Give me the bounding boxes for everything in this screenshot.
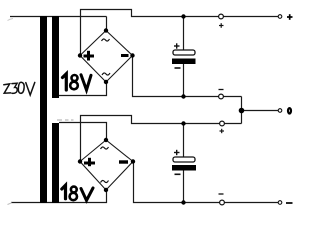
- label - output terminal: [286, 202, 293, 204]
- connector circle - rail: [220, 200, 225, 205]
- connector circle minus of top supply: [219, 94, 224, 99]
- B1 - node dot right: [130, 53, 134, 57]
- junction dot C2 bottom: [181, 200, 185, 204]
- terminal circle 0 output: [278, 109, 282, 113]
- wire primary top / secondary top lead: [10, 16, 107, 18]
- wire bridge2 + output rail: [81, 116, 242, 162]
- wire C2 top lead: [183, 124, 185, 158]
- B2 AC node dot bottom: [104, 188, 108, 192]
- B2 AC node dot top: [104, 138, 108, 142]
- B2 + node dot left: [78, 159, 82, 163]
- terminal circle + output: [278, 15, 282, 19]
- wire bridge2 - output rail: [134, 162, 279, 203]
- wire bridge2 AC bottom return / primary bottom: [11, 190, 107, 203]
- B1 tilde top: [102, 39, 110, 41]
- junction dot C1 top: [181, 14, 185, 18]
- wire secondary2 top lead: [59, 123, 107, 141]
- C1 minus label: [175, 67, 181, 69]
- capacitor C2 plus plate: [173, 157, 195, 162]
- junction dot C1 bottom: [181, 94, 185, 98]
- wire top secondary top to bridge AC top: [106, 17, 108, 31]
- wire bridge1 - output rail: [133, 56, 242, 97]
- wire mid junction vertical: [241, 97, 243, 124]
- small + label at rail B connector: [220, 129, 225, 133]
- B1 AC node dot top: [104, 28, 108, 32]
- transformer TR1 primary winding bar: [40, 16, 47, 203]
- label 230V primary voltage: [4, 82, 35, 95]
- bridge rectifier B2 diamond: [80, 140, 133, 190]
- B1 plus marker: [84, 51, 95, 61]
- wire bridge1 + output up-over: [81, 10, 279, 56]
- faint taper bottom-left wire start: [8, 203, 13, 205]
- B2 - node dot right: [131, 159, 135, 163]
- B2 minus marker: [119, 160, 128, 163]
- connector circle plus of bottom supply: [220, 121, 225, 126]
- B1 tilde bottom: [102, 73, 110, 75]
- wire 0 output: [242, 110, 279, 112]
- terminal circle - output: [278, 201, 282, 205]
- wire bridge1 AC bottom return: [59, 82, 107, 96]
- B1 AC node dot bottom: [104, 80, 108, 84]
- label 18V secondary 1: [63, 74, 92, 90]
- small - label at rail A connector: [219, 89, 224, 91]
- junction dot 0 node: [239, 108, 245, 114]
- wire C2 bottom lead: [183, 170, 185, 203]
- label 0 output terminal: [288, 108, 291, 113]
- C2 minus label: [175, 173, 181, 175]
- wire C1 bottom lead: [183, 64, 185, 97]
- faint smudge top-left wire start: [8, 19, 14, 21]
- transformer TR1 secondary winding 1 bar: [52, 16, 59, 98]
- C1 plus label: [174, 43, 180, 48]
- capacitor C1 plus plate: [173, 50, 195, 55]
- bridge rectifier B1 diamond: [80, 31, 133, 83]
- junction dot C2 top: [181, 121, 185, 125]
- B2 plus marker: [84, 158, 95, 166]
- small + label at top rail connector: [219, 23, 224, 28]
- capacitor C1 minus plate: [172, 59, 196, 65]
- transformer TR1 secondary winding 2 bar: [52, 123, 59, 203]
- connector circle + rail: [219, 14, 224, 19]
- wire C1 top lead: [183, 17, 185, 51]
- label 18v secondary 2: [62, 185, 93, 200]
- B1 minus marker: [121, 54, 129, 57]
- B1 + node dot left: [78, 53, 82, 57]
- capacitor C2 minus plate: [172, 165, 196, 171]
- B2 tilde top: [101, 147, 109, 149]
- label + output terminal: [287, 14, 293, 20]
- small - label at bottom rail connector: [219, 193, 224, 195]
- C2 plus label: [174, 150, 180, 155]
- B2 tilde bottom: [101, 180, 109, 182]
- core dashes between windings: [57, 119, 74, 121]
